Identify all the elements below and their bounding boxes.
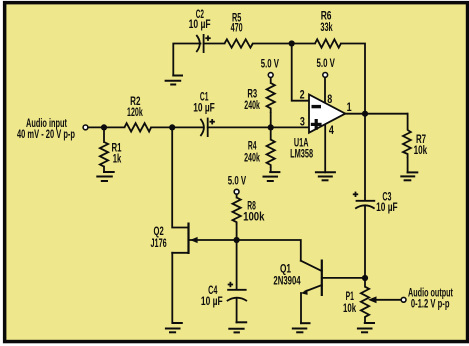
svg-text:10 µF: 10 µF (193, 101, 215, 115)
svg-text:5.0 V: 5.0 V (317, 56, 335, 70)
capacitor C4 (201, 240, 247, 322)
svg-text:LM358: LM358 (290, 147, 313, 161)
node R2/C1/Q2 junction (169, 124, 175, 130)
resistor R6 (292, 9, 341, 48)
op-amp U1A LM358 (290, 87, 352, 160)
node output junction (362, 111, 368, 117)
svg-text:8: 8 (327, 92, 332, 106)
transistor Q2 J176 (151, 223, 237, 255)
ground (op-amp pin 4) (315, 172, 336, 180)
wire R2 to C1 (151, 126, 202, 128)
node R8/C4/gate junction (234, 237, 240, 243)
ground (C4) (228, 322, 247, 332)
capacitor C1 (193, 89, 215, 137)
wire R2 junction down to Q2 drain (172, 127, 188, 227)
svg-text:10 µF: 10 µF (189, 17, 211, 31)
wire R6 to output node (341, 44, 365, 114)
resistor R2 (124, 94, 151, 131)
wire op-amp output row (345, 113, 407, 115)
svg-text:10k: 10k (343, 301, 356, 315)
output terminal (401, 297, 406, 302)
ground (P1) (357, 323, 375, 332)
5.0 V supply terminal (R3) (261, 57, 279, 78)
svg-text:240k: 240k (244, 98, 260, 112)
ground (Q2 source) (165, 323, 183, 332)
node R5/R6/pin2 junction (289, 40, 295, 46)
wire junction to op-amp pin 2 (292, 44, 309, 101)
ground (R1) (96, 172, 114, 181)
label Audio input (17, 116, 75, 141)
label Audio output (408, 285, 453, 310)
input terminal (83, 125, 88, 130)
resistor R1 (100, 127, 122, 172)
wire pin 8 (324, 78, 326, 103)
5.0 V supply terminal (R8) (228, 174, 246, 195)
resistor R4 (244, 127, 275, 172)
wire R5 to junction (253, 43, 292, 45)
svg-text:J176: J176 (151, 236, 167, 250)
wire pin 4 to ground (324, 124, 326, 172)
wire Q1 emitter to ground (300, 293, 302, 323)
ground (R7) (400, 172, 418, 180)
svg-text:3: 3 (300, 115, 305, 129)
svg-text:5.0 V: 5.0 V (228, 174, 246, 188)
wire input row left (89, 126, 125, 128)
wire C2 left to ground (173, 44, 200, 76)
potentiometer P1 (343, 278, 401, 323)
svg-text:1k: 1k (113, 152, 122, 166)
wire Q2 source to ground (171, 253, 173, 323)
resistor R8 (233, 195, 265, 240)
svg-text:100k: 100k (243, 209, 265, 223)
svg-text:0-1.2 V p-p: 0-1.2 V p-p (411, 296, 450, 310)
svg-text:10k: 10k (414, 143, 428, 157)
svg-text:470: 470 (231, 20, 243, 34)
svg-text:10 µF: 10 µF (201, 294, 223, 308)
svg-text:2: 2 (300, 87, 305, 101)
svg-text:1: 1 (347, 100, 352, 114)
resistor R3 (244, 78, 275, 127)
ground (Q1 emitter) (292, 323, 311, 332)
ground (C2) (165, 76, 183, 85)
wire output node to C3 (364, 114, 366, 200)
node C3/Q1 base/P1 junction (362, 275, 368, 281)
svg-text:240k: 240k (244, 150, 260, 164)
node input/R1 junction (101, 124, 107, 130)
wire C1 to op-amp pin 3 (208, 126, 309, 128)
svg-text:40 mV - 20 V p-p: 40 mV - 20 V p-p (17, 127, 75, 141)
resistor R7 (403, 114, 427, 173)
svg-text:2N3904: 2N3904 (273, 273, 300, 287)
svg-text:5.0 V: 5.0 V (261, 57, 279, 71)
svg-text:33k: 33k (320, 20, 332, 34)
5.0 V supply terminal (op-amp pin 8) (317, 56, 335, 77)
transistor Q1 2N3904 (273, 260, 365, 297)
resistor R5 (225, 10, 253, 47)
ground (R4) (263, 172, 281, 181)
capacitor C3 (353, 190, 398, 214)
svg-text:10 µF: 10 µF (376, 200, 398, 214)
wire R8 node to Q1 collector (237, 240, 301, 261)
node C1/R3/R4 junction (268, 124, 274, 130)
capacitor C2 (189, 7, 211, 53)
svg-text:120k: 120k (127, 105, 143, 119)
wire C3 to P1 node (364, 206, 366, 278)
svg-text:4: 4 (329, 123, 334, 137)
wire C2 to R5 (204, 43, 225, 45)
